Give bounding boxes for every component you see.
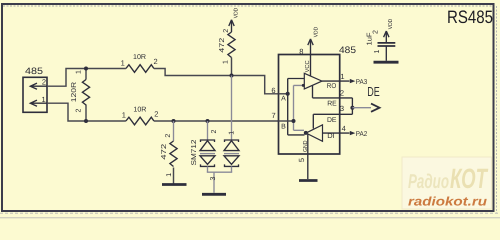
svg-text:VCC: VCC [304, 60, 311, 72]
svg-text:1uF: 1uF [366, 33, 373, 46]
svg-text:10R: 10R [133, 54, 146, 61]
svg-text:3: 3 [340, 104, 344, 113]
svg-text:2: 2 [211, 129, 218, 133]
svg-text:2: 2 [165, 134, 172, 138]
svg-text:5: 5 [297, 158, 306, 162]
svg-text:1: 1 [122, 111, 126, 120]
svg-text:1: 1 [166, 173, 173, 177]
svg-text:2: 2 [75, 108, 82, 112]
svg-text:2: 2 [373, 30, 380, 34]
svg-text:2: 2 [42, 78, 46, 87]
svg-text:VDD: VDD [388, 19, 394, 30]
svg-text:PA2: PA2 [356, 131, 368, 138]
svg-text:B: B [281, 123, 286, 130]
svg-text:VDD: VDD [313, 27, 319, 38]
svg-text:1: 1 [374, 49, 381, 53]
svg-text:1: 1 [121, 58, 125, 67]
svg-text:1: 1 [223, 60, 230, 64]
svg-text:8: 8 [299, 47, 303, 56]
svg-text:6: 6 [271, 86, 275, 95]
svg-text:485: 485 [339, 45, 356, 56]
svg-text:RO: RO [327, 83, 337, 90]
svg-text:RE: RE [327, 100, 337, 107]
svg-text:DE: DE [367, 84, 380, 99]
svg-text:RS485: RS485 [447, 7, 493, 27]
svg-text:VDD: VDD [234, 8, 240, 19]
svg-text:radiokot.ru: radiokot.ru [408, 195, 487, 209]
svg-text:КОТ: КОТ [450, 163, 489, 194]
svg-text:1: 1 [75, 70, 82, 74]
svg-text:Радио: Радио [408, 171, 449, 193]
svg-text:1: 1 [229, 131, 236, 135]
svg-text:DI: DI [327, 133, 335, 140]
svg-text:472: 472 [219, 38, 226, 53]
svg-text:SM712: SM712 [191, 139, 198, 165]
svg-text:PA3: PA3 [356, 79, 368, 86]
svg-text:GND: GND [302, 141, 309, 153]
svg-text:2: 2 [154, 57, 158, 66]
svg-text:DE: DE [327, 117, 337, 124]
svg-text:10R: 10R [133, 106, 146, 113]
svg-text:2: 2 [154, 109, 158, 118]
svg-text:2: 2 [223, 29, 230, 33]
svg-text:1: 1 [42, 95, 46, 104]
svg-text:2: 2 [340, 88, 344, 97]
svg-text:485: 485 [25, 66, 43, 76]
svg-text:3: 3 [210, 176, 217, 180]
svg-text:120R: 120R [71, 82, 78, 103]
svg-text:A: A [281, 96, 286, 103]
svg-text:1: 1 [340, 72, 344, 81]
svg-text:7: 7 [272, 111, 276, 120]
svg-text:472: 472 [161, 144, 168, 160]
svg-text:4: 4 [342, 124, 346, 133]
